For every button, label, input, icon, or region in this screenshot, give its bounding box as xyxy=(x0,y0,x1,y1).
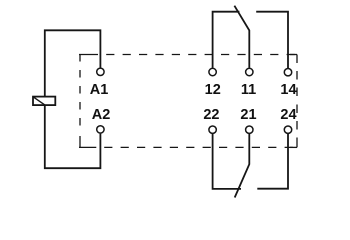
svg-text:11: 11 xyxy=(241,82,256,98)
svg-text:24: 24 xyxy=(280,107,296,123)
svg-text:22: 22 xyxy=(203,107,219,123)
svg-text:14: 14 xyxy=(280,82,296,98)
svg-text:A2: A2 xyxy=(92,107,111,123)
svg-text:A1: A1 xyxy=(90,82,109,98)
svg-text:12: 12 xyxy=(205,82,221,98)
svg-text:21: 21 xyxy=(240,107,256,123)
